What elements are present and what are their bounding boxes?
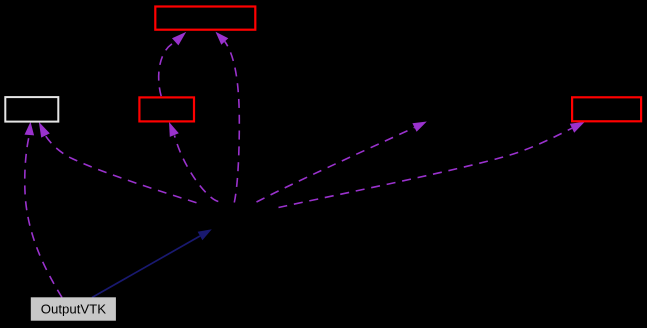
wire: inheritance edge OutputVTK to center node (solid blue) xyxy=(92,236,200,298)
node: top red box xyxy=(155,7,255,30)
wire: usage edge center node to right red node xyxy=(279,128,573,207)
wire: usage edge center node to top red node xyxy=(225,42,240,203)
node: right red box xyxy=(572,97,641,121)
arrowhead of edge OutputVTK to left white node xyxy=(25,122,35,136)
arrowhead of edge mid-left red node to top red node xyxy=(172,32,186,46)
wire: usage edge center node to left white node xyxy=(46,136,197,203)
arrowhead of inheritance edge xyxy=(198,229,212,240)
arrowhead of edge center node to right red node xyxy=(570,122,585,133)
node: mid-left red box xyxy=(139,97,194,121)
wire: usage edge mid-left red node to top red node xyxy=(159,42,176,96)
wire: usage edge OutputVTK to left white node xyxy=(25,136,62,298)
arrowhead of edge center node to hidden middle node xyxy=(412,122,426,132)
arrowhead of edge center node to left white node xyxy=(39,122,50,138)
arrowhead of edge center node to mid-left red node xyxy=(169,122,179,137)
node: left white box xyxy=(5,97,58,122)
wire: usage edge center node to hidden middle node xyxy=(257,128,415,203)
svg-text:OutputVTK: OutputVTK xyxy=(41,302,106,317)
node OutputVTK (current class, grey filled) xyxy=(31,297,116,320)
wire: usage edge center node to mid-left red node xyxy=(175,136,219,202)
arrowhead of edge center node to top red node xyxy=(216,32,229,45)
